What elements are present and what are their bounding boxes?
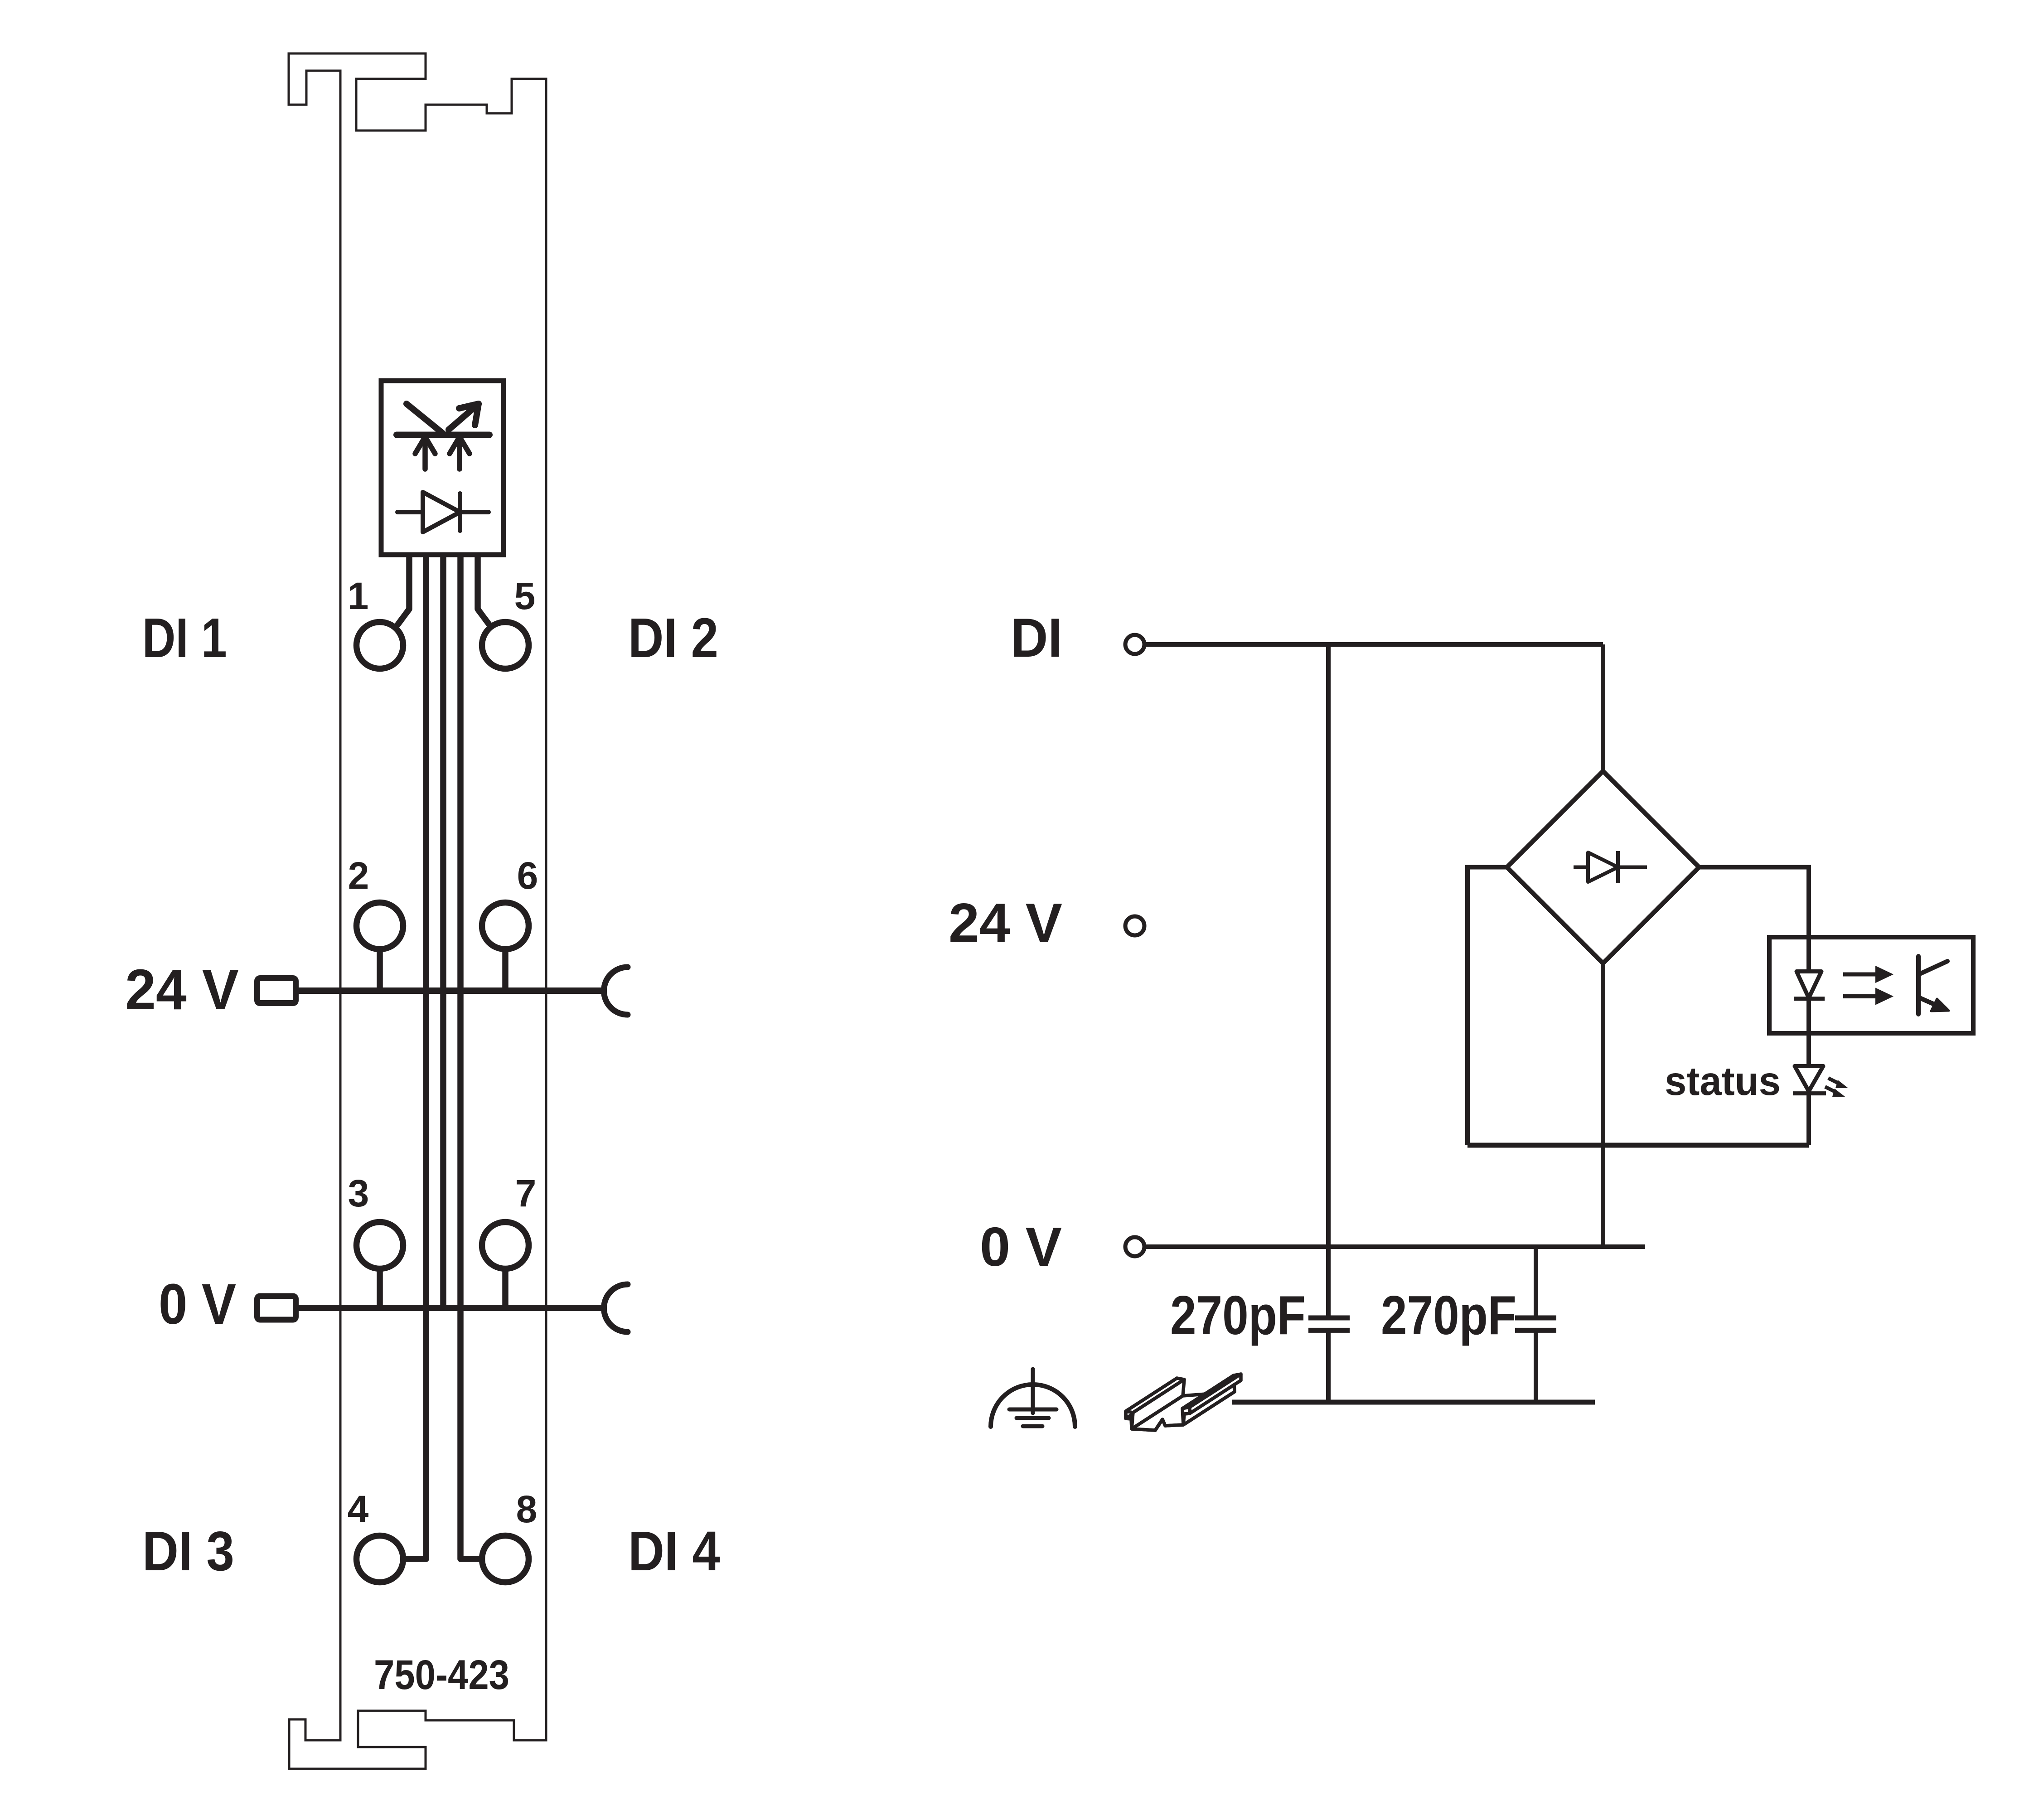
status LED emission arrows (1825, 1078, 1840, 1093)
svg-text:DI 1: DI 1 (142, 607, 227, 669)
svg-text:5: 5 (514, 575, 536, 617)
DIN rail symbol (1126, 1374, 1241, 1430)
wire 0V vertical from U1 to 0V bus (440, 556, 446, 1308)
terminal 1 (357, 622, 403, 669)
24V bus right hook (604, 967, 628, 1015)
optocoupler box U2 (1769, 937, 1973, 1033)
svg-text:6: 6 (517, 854, 538, 897)
opto-isolator block U1 (381, 381, 504, 555)
U1 symbol: diode D1 (397, 492, 489, 532)
wire bridge bottom to 0V (1601, 963, 1605, 1247)
24V terminal (right) (1125, 916, 1144, 935)
svg-text:7: 7 (515, 1172, 537, 1215)
svg-text:24 V: 24 V (949, 892, 1062, 954)
ground rail wire (1232, 1400, 1595, 1405)
earth ground symbol (991, 1369, 1075, 1427)
terminal 8 (482, 1536, 529, 1583)
wire bridge right vertex to opto box (1699, 867, 1809, 940)
wire status LED to rail (1806, 1093, 1811, 1145)
svg-text:2: 2 (348, 854, 369, 897)
0V field-terminal symbol (257, 1296, 296, 1320)
stub terminal 7 to 0V bus (502, 1269, 508, 1308)
svg-text:DI: DI (1011, 607, 1062, 668)
U2 LED cathode wire down to status LED (1806, 999, 1811, 1066)
U2 phototransistor (1918, 956, 1947, 1014)
svg-text:DI 4: DI 4 (628, 1520, 720, 1583)
wire pin1 from U1 to terminal 1 (397, 556, 489, 1559)
U2 LED (1794, 972, 1825, 999)
terminal 5 (482, 622, 529, 669)
wire C2 to ground rail (1534, 1330, 1538, 1402)
module 750-423 body outline (289, 53, 546, 1769)
stub terminal 2 to 24V bus (380, 949, 505, 1308)
bottom rail wire (1467, 1143, 1809, 1148)
terminal 4 (357, 1536, 403, 1583)
capacitor C2 270pF (1515, 1318, 1556, 1330)
bridge diode symbol (1574, 851, 1647, 883)
wire DI4 vertical to terminal 8 (460, 556, 479, 1559)
wire DI3 vertical to terminal 4 (407, 556, 426, 1559)
terminal 2 (357, 903, 403, 949)
wire 0V horizontal (1145, 1244, 1645, 1249)
wire bridge left vertex to rail (1467, 867, 1507, 1146)
wire C1 to ground rail (1326, 1330, 1331, 1402)
svg-text:750-423: 750-423 (374, 1652, 509, 1698)
U1 symbol: descending diagonal (407, 404, 443, 434)
0V terminal (right) (1125, 1237, 1144, 1256)
svg-text:DI 2: DI 2 (628, 607, 718, 669)
svg-text:0 V: 0 V (159, 1272, 236, 1336)
wire 0V to capacitor C2 (1534, 1247, 1538, 1318)
svg-text:270pF: 270pF (1381, 1284, 1516, 1346)
svg-text:4: 4 (348, 1488, 369, 1530)
24V field-terminal symbol (257, 978, 296, 1003)
24V bus wire (299, 987, 604, 994)
terminal 3 (357, 1222, 403, 1269)
svg-text:DI 3: DI 3 (142, 1520, 234, 1583)
capacitor C1 270pF (1308, 1318, 1350, 1330)
terminal 6 (482, 903, 529, 949)
U1 symbol: ascending arrow (449, 407, 475, 430)
svg-text:3: 3 (348, 1172, 369, 1215)
terminal 7 (482, 1222, 529, 1269)
0V bus right hook (604, 1284, 628, 1332)
stub terminal 6 to 24V bus (502, 949, 508, 991)
U1 symbol: up-arrow right (457, 438, 462, 469)
U1 symbol: photo-input bar (397, 404, 489, 435)
svg-text:270pF: 270pF (1170, 1284, 1306, 1346)
svg-text:1: 1 (348, 575, 369, 617)
U2 light arrows (1843, 974, 1876, 997)
wire pin5 from U1 to terminal 5 (478, 556, 489, 625)
wire DI tee down to cap C1 (1326, 644, 1331, 1318)
wire DI to bridge top (1601, 644, 1605, 773)
svg-text:24 V: 24 V (125, 958, 239, 1021)
svg-text:status: status (1665, 1058, 1781, 1104)
U1 symbol: up-arrow left (415, 437, 470, 469)
bridge rectifier diamond (1507, 771, 1699, 963)
status LED (1793, 1066, 1826, 1093)
stub terminal 3 to 0V bus (377, 1269, 383, 1308)
0V bus wire (299, 1305, 604, 1311)
wire DI horizontal (1145, 642, 1603, 647)
DI input terminal (1125, 635, 1144, 654)
U2 LED anode wire (1806, 937, 1811, 972)
svg-text:8: 8 (516, 1488, 538, 1530)
svg-text:0 V: 0 V (980, 1216, 1062, 1278)
